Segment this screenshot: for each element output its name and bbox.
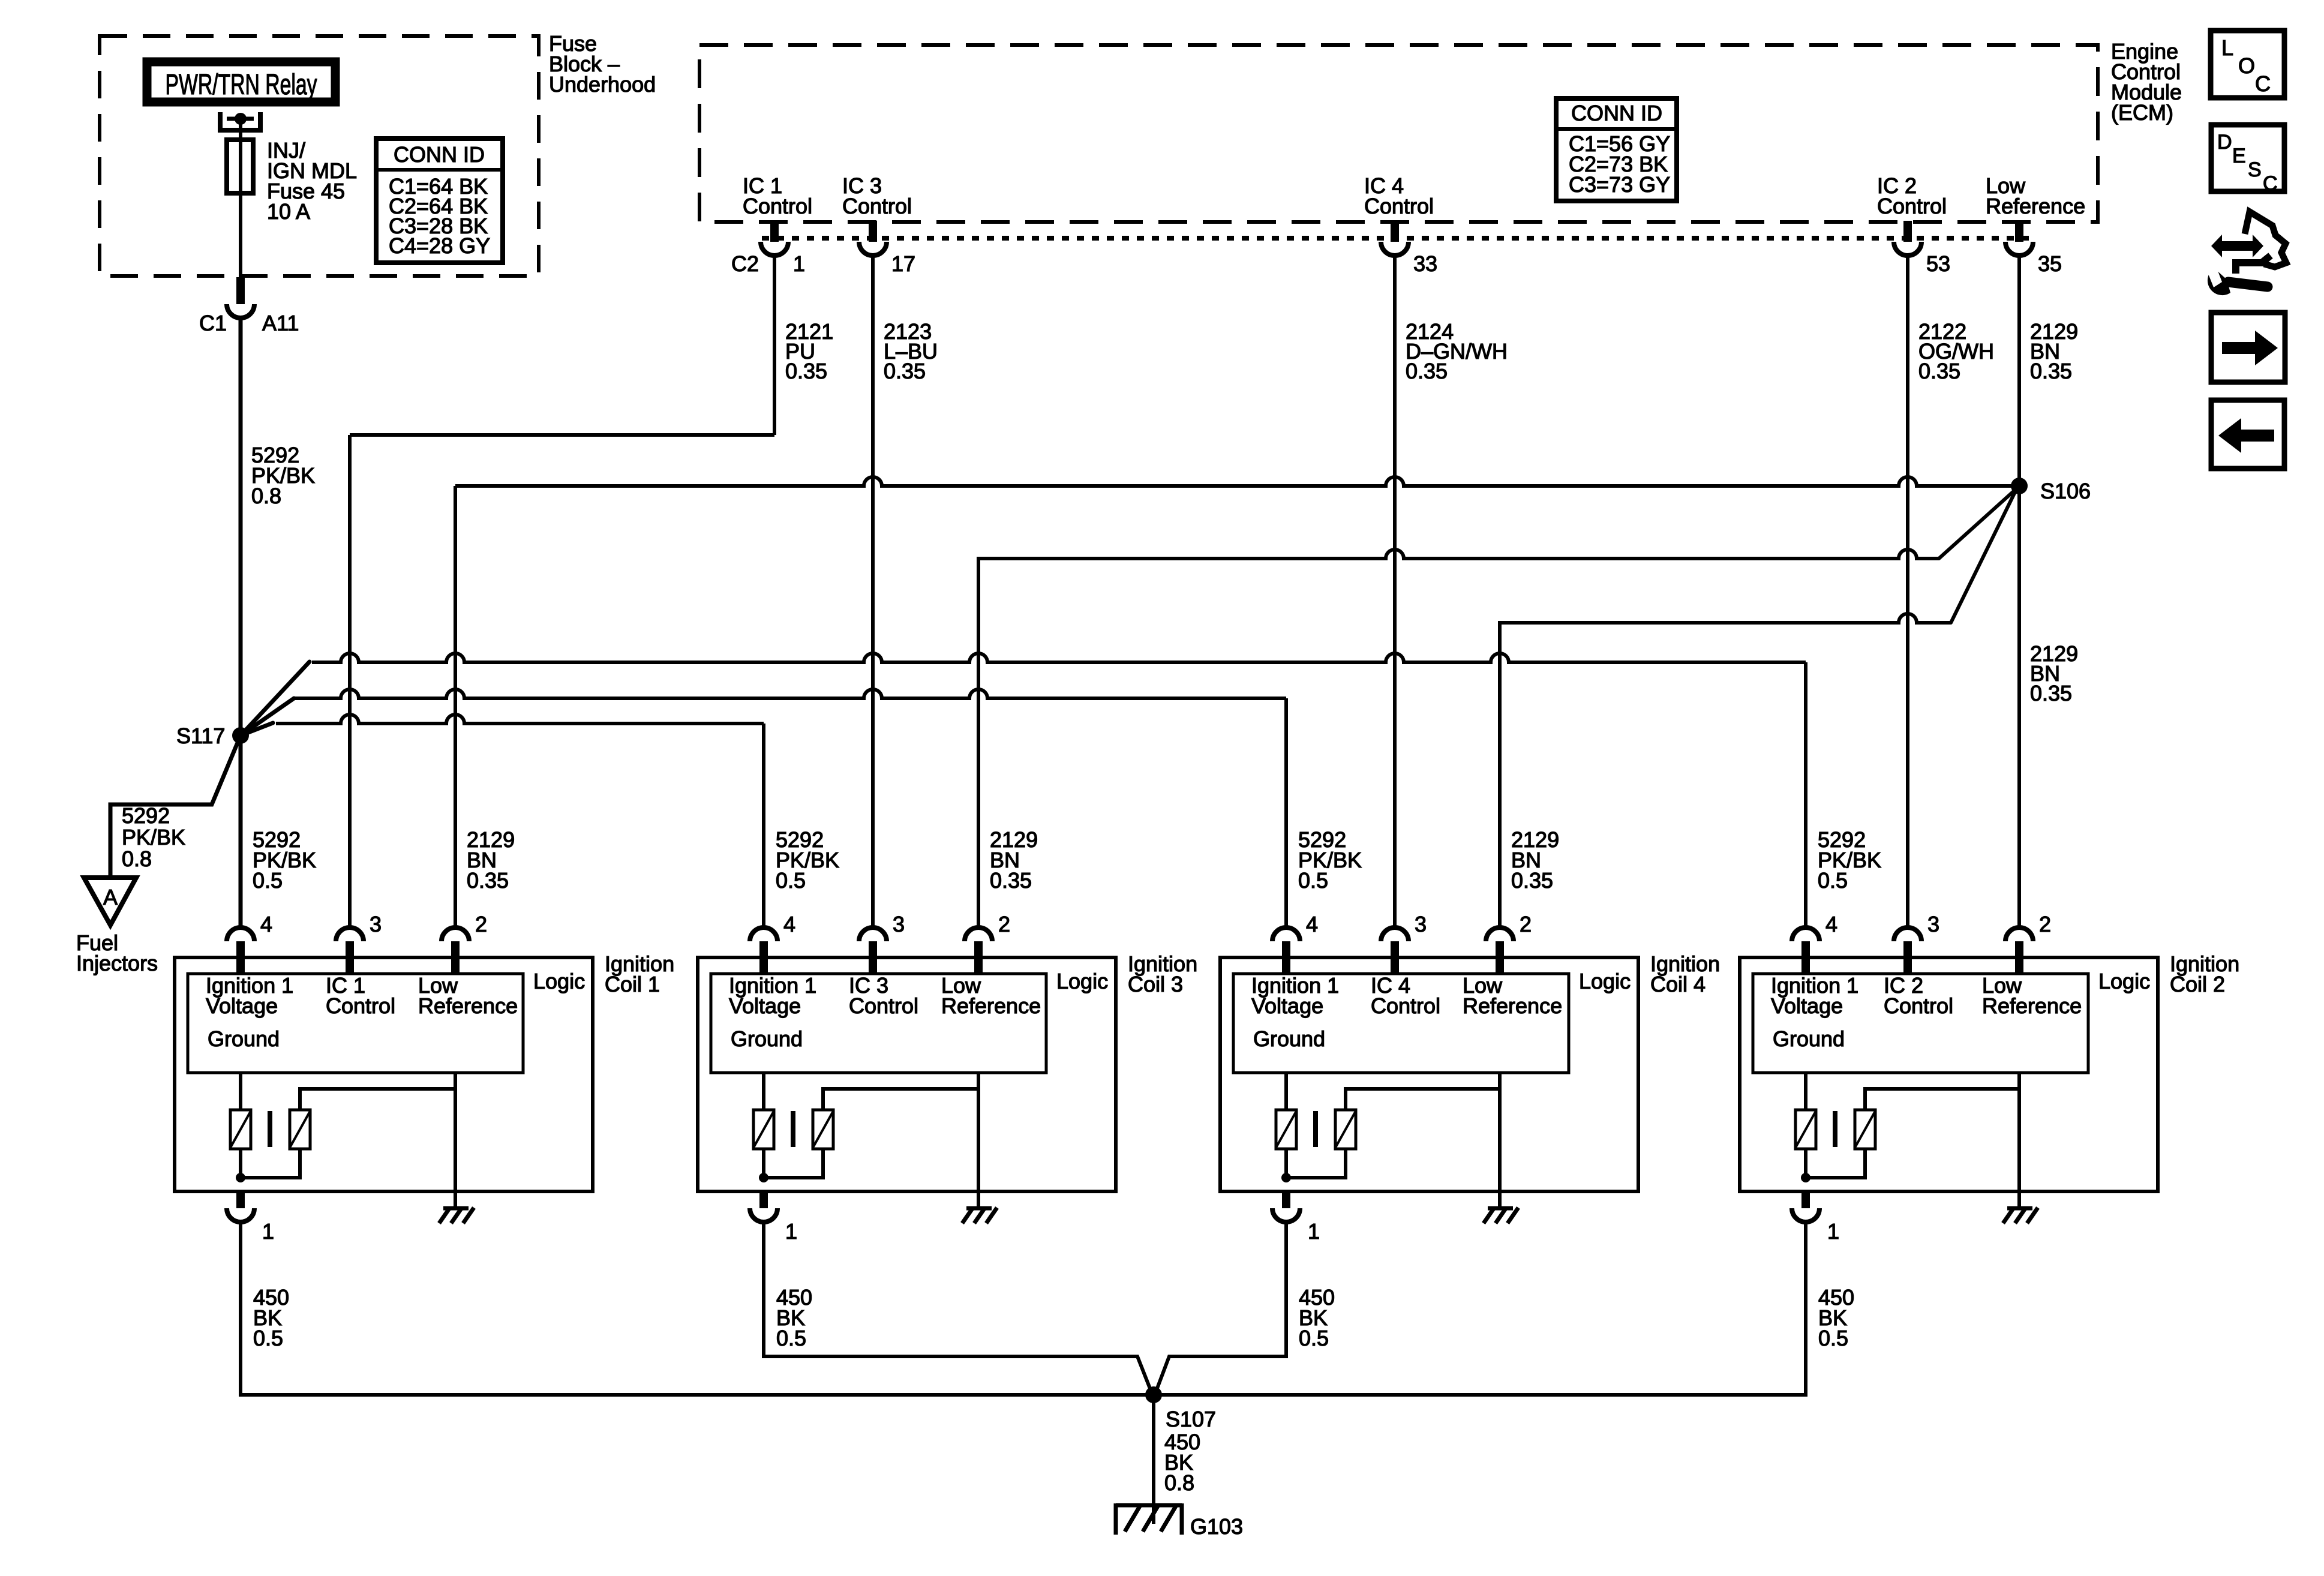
wire coil1 pin2 drop bbox=[454, 486, 457, 927]
coil 3 wire labels bbox=[776, 827, 1038, 893]
wire coil2 pin4 drop bbox=[1804, 662, 1807, 927]
svg-text:1: 1 bbox=[262, 1219, 274, 1244]
coil 4 wire labels bbox=[1298, 827, 1559, 893]
ECM connector pin 1 bbox=[761, 221, 788, 256]
svg-text:C4=28 GY: C4=28 GY bbox=[389, 233, 490, 258]
svg-text:S117: S117 bbox=[176, 724, 225, 748]
icon vehicle outline bbox=[2236, 212, 2286, 274]
svg-text:5292: 5292 bbox=[122, 803, 170, 828]
wire coil3 pin4 drop bbox=[762, 724, 765, 927]
svg-text:Voltage: Voltage bbox=[206, 993, 278, 1018]
svg-text:4: 4 bbox=[1825, 912, 1837, 936]
svg-text:53: 53 bbox=[1926, 251, 1950, 276]
label S117 bbox=[176, 724, 225, 748]
icon DESC box bbox=[2211, 125, 2284, 195]
svg-text:17: 17 bbox=[891, 251, 915, 276]
wire diagonal y1043 to S106 bbox=[1951, 488, 2017, 623]
ECM C2 connector dotted line bbox=[762, 236, 2035, 241]
pin number 17 bbox=[891, 251, 915, 276]
svg-text:Control: Control bbox=[326, 993, 395, 1018]
label 450 BK 0.8 bbox=[1164, 1430, 1200, 1495]
label G103 bbox=[1190, 1514, 1243, 1539]
wire L3 y1206 to coil3 pin4 bbox=[276, 715, 764, 724]
svg-text:CONN ID: CONN ID bbox=[1571, 101, 1662, 125]
fuse label bbox=[267, 138, 357, 224]
svg-text:Control: Control bbox=[1884, 993, 1953, 1018]
label C2 bbox=[731, 251, 759, 276]
svg-text:0.5: 0.5 bbox=[1818, 1326, 1848, 1350]
ignition coil 3 label bbox=[1128, 951, 1197, 996]
svg-text:35: 35 bbox=[2038, 251, 2062, 276]
ECM pin label IC 3 Control bbox=[842, 173, 912, 218]
svg-text:0.8: 0.8 bbox=[1164, 1470, 1194, 1495]
ignition coil 1 box bbox=[175, 912, 593, 1244]
svg-text:Control: Control bbox=[842, 194, 912, 218]
svg-text:0.35: 0.35 bbox=[1406, 359, 1448, 383]
fuel injectors off-page triangle A bbox=[84, 878, 136, 925]
svg-text:3: 3 bbox=[370, 912, 382, 936]
svg-text:Underhood: Underhood bbox=[549, 72, 656, 97]
svg-text:A: A bbox=[103, 885, 118, 909]
svg-text:Reference: Reference bbox=[1986, 194, 2085, 218]
svg-text:Voltage: Voltage bbox=[1251, 993, 1323, 1018]
wire S107 to G103 bbox=[1152, 1395, 1155, 1524]
ECM connector pin 35 bbox=[2005, 221, 2033, 256]
wire low ref bus y810 bbox=[455, 477, 2019, 486]
wire label 5292 PK/BK 0.8 upper bbox=[251, 443, 315, 508]
wire label 2124 D-GN/WH bbox=[1406, 319, 1508, 383]
relay contact bracket bbox=[220, 112, 260, 130]
label A11 bbox=[262, 311, 299, 335]
svg-text:33: 33 bbox=[1413, 251, 1437, 276]
svg-text:Voltage: Voltage bbox=[729, 993, 801, 1018]
svg-text:Logic: Logic bbox=[1056, 969, 1108, 993]
coil 1 450 BK label bbox=[253, 1285, 289, 1350]
relay K-PWR/TRN box bbox=[147, 62, 335, 102]
svg-text:S106: S106 bbox=[2040, 479, 2091, 503]
wire label 2129 BN top bbox=[2030, 319, 2078, 383]
svg-text:4: 4 bbox=[260, 912, 272, 936]
svg-text:0.5: 0.5 bbox=[1299, 1326, 1329, 1350]
ignition coil 2 label bbox=[2170, 951, 2239, 996]
svg-text:0.35: 0.35 bbox=[1511, 868, 1553, 893]
coil 2 wire labels bbox=[1818, 827, 1881, 893]
svg-text:0.5: 0.5 bbox=[776, 1326, 806, 1350]
icon vehicle double arrow bbox=[2211, 235, 2263, 257]
wire coil4 pin4 drop bbox=[1284, 698, 1288, 927]
ECM connector pin 33 bbox=[1381, 221, 1409, 256]
svg-text:0.5: 0.5 bbox=[776, 868, 806, 893]
svg-text:L: L bbox=[2221, 35, 2233, 60]
svg-text:Logic: Logic bbox=[2098, 969, 2150, 993]
label S106 bbox=[2040, 479, 2091, 503]
wire S117 diag to L3 bbox=[241, 723, 273, 736]
wire coil1 pin3 drop bbox=[348, 435, 352, 927]
svg-text:Control: Control bbox=[849, 993, 918, 1018]
svg-text:Reference: Reference bbox=[418, 993, 518, 1018]
coil 1 wire labels bbox=[253, 827, 515, 893]
ECM dashed box bbox=[699, 45, 2098, 222]
svg-text:Control: Control bbox=[1877, 194, 1947, 218]
ECM pin label IC 4 Control bbox=[1364, 173, 1434, 218]
svg-text:C1: C1 bbox=[199, 311, 227, 335]
svg-text:CONN ID: CONN ID bbox=[394, 142, 485, 167]
svg-text:Control: Control bbox=[1364, 194, 1434, 218]
svg-text:0.35: 0.35 bbox=[1918, 359, 1960, 383]
label fuel injectors bbox=[76, 930, 158, 975]
svg-text:A11: A11 bbox=[262, 311, 299, 335]
fuse F45 INJ/IGN MDL bbox=[227, 140, 253, 193]
svg-text:Reference: Reference bbox=[1982, 993, 2082, 1018]
coil 2 450 BK label bbox=[1818, 1285, 1854, 1350]
svg-text:Coil 3: Coil 3 bbox=[1128, 972, 1183, 996]
wire label 2129 BN mid bbox=[2030, 641, 2078, 706]
pin number 33 bbox=[1413, 251, 1437, 276]
ECM pin label IC 1 Control bbox=[743, 173, 812, 218]
svg-text:Ground: Ground bbox=[731, 1026, 803, 1051]
svg-text:10 A: 10 A bbox=[267, 199, 310, 224]
wire diagonal y931 to S106 bbox=[1939, 488, 2017, 559]
svg-text:S107: S107 bbox=[1166, 1407, 1216, 1431]
svg-text:S: S bbox=[2248, 158, 2262, 181]
svg-text:Control: Control bbox=[1371, 993, 1440, 1018]
ECM label bbox=[2111, 39, 2182, 125]
ignition coil 3 box bbox=[698, 912, 1116, 1244]
pin number 1 bbox=[793, 251, 805, 276]
svg-text:Reference: Reference bbox=[941, 993, 1041, 1018]
svg-text:0.35: 0.35 bbox=[2030, 681, 2072, 706]
wire S117 diag to L1 bbox=[241, 662, 310, 736]
svg-text:2: 2 bbox=[475, 912, 487, 936]
svg-text:2: 2 bbox=[2039, 912, 2051, 936]
svg-text:Coil 2: Coil 2 bbox=[2170, 972, 2225, 996]
ECM connector pin 53 bbox=[1894, 221, 1921, 256]
junction S117 bbox=[232, 727, 249, 744]
ECM connector pin 17 bbox=[859, 221, 887, 256]
junction S107 bbox=[1145, 1386, 1162, 1403]
wire label 2122 OG/WH bbox=[1918, 319, 1994, 383]
svg-text:PWR/TRN Relay: PWR/TRN Relay bbox=[166, 69, 317, 101]
wire S117 diag to L2 bbox=[241, 698, 294, 736]
svg-text:2: 2 bbox=[1520, 912, 1532, 936]
svg-text:3: 3 bbox=[893, 912, 905, 936]
svg-text:G103: G103 bbox=[1190, 1514, 1243, 1539]
svg-text:2: 2 bbox=[998, 912, 1010, 936]
svg-text:0.35: 0.35 bbox=[2030, 359, 2072, 383]
icon right arrow box bbox=[2211, 313, 2285, 382]
svg-text:Injectors: Injectors bbox=[76, 951, 158, 975]
svg-text:0.35: 0.35 bbox=[990, 868, 1032, 893]
icon wrench bbox=[2206, 265, 2268, 295]
svg-text:Ground: Ground bbox=[1773, 1026, 1845, 1051]
wire pin35 through S106 to coil2 pin2 bbox=[2017, 256, 2021, 927]
wire pin17 to coil3 pin3 bbox=[871, 256, 875, 927]
wire label 2121 PU bbox=[785, 319, 833, 383]
svg-text:Voltage: Voltage bbox=[1771, 993, 1843, 1018]
wire coil4 pin1 to S107 bbox=[1155, 1222, 1286, 1393]
ignition coil 4 box bbox=[1220, 912, 1638, 1244]
svg-text:O: O bbox=[2238, 53, 2255, 78]
ignition coil 1 label bbox=[605, 951, 674, 996]
fuse block - underhood dashed box bbox=[100, 36, 539, 276]
svg-text:PK/BK: PK/BK bbox=[122, 825, 185, 849]
svg-text:Control: Control bbox=[743, 194, 812, 218]
svg-text:0.5: 0.5 bbox=[253, 1326, 283, 1350]
connector C1 pin A11 bbox=[227, 277, 254, 318]
wire label 2123 L-BU bbox=[884, 319, 938, 383]
svg-text:0.8: 0.8 bbox=[251, 484, 281, 508]
wire pin1 down bbox=[773, 256, 776, 435]
ground G103 symbol bbox=[1116, 1503, 1182, 1535]
svg-text:4: 4 bbox=[1306, 912, 1318, 936]
icon LOC box bbox=[2211, 31, 2284, 98]
svg-text:1: 1 bbox=[1827, 1219, 1839, 1244]
fuse block label bbox=[549, 31, 656, 97]
svg-text:0.8: 0.8 bbox=[122, 846, 152, 871]
wire S117 to coil1 pin4 bbox=[239, 736, 243, 927]
wire L2 y1168 to coil4 pin4 bbox=[294, 689, 1286, 698]
coil 4 450 BK label bbox=[1299, 1285, 1335, 1350]
ECM pin label Low Reference bbox=[1986, 173, 2085, 218]
svg-text:0.35: 0.35 bbox=[785, 359, 827, 383]
svg-text:1: 1 bbox=[785, 1219, 797, 1244]
svg-text:Logic: Logic bbox=[533, 969, 585, 993]
svg-text:0.5: 0.5 bbox=[1298, 868, 1328, 893]
svg-text:1: 1 bbox=[793, 251, 805, 276]
wire coil3 pin2 up and right y931 bbox=[978, 550, 1939, 927]
wire relay to fuse bbox=[239, 121, 242, 277]
pin number 35 bbox=[2038, 251, 2062, 276]
wire coil3 pin1 to S107 bbox=[764, 1222, 1152, 1393]
svg-text:C: C bbox=[2255, 71, 2271, 96]
ignition coil 4 label bbox=[1650, 951, 1720, 996]
ECM pin label IC 2 Control bbox=[1877, 173, 1947, 218]
svg-text:D: D bbox=[2217, 131, 2232, 154]
coil 3 450 BK label bbox=[776, 1285, 812, 1350]
svg-text:3: 3 bbox=[1927, 912, 1939, 936]
svg-text:0.35: 0.35 bbox=[884, 359, 926, 383]
label 5292 PK/BK 0.8 lower bbox=[122, 803, 185, 871]
pin number 53 bbox=[1926, 251, 1950, 276]
svg-text:0.35: 0.35 bbox=[467, 868, 509, 893]
conn id table fuse block bbox=[376, 139, 503, 263]
svg-text:C2: C2 bbox=[731, 251, 759, 276]
icon left arrow box bbox=[2211, 400, 2284, 469]
wire coil4 pin2 up and right y1043 bbox=[1500, 614, 1951, 927]
svg-text:3: 3 bbox=[1415, 912, 1427, 936]
svg-text:1: 1 bbox=[1308, 1219, 1320, 1244]
svg-text:Reference: Reference bbox=[1463, 993, 1562, 1018]
ignition coil 2 box bbox=[1740, 912, 2158, 1244]
wire pin33 to coil4 pin3 bbox=[1393, 256, 1397, 927]
svg-text:Ground: Ground bbox=[1253, 1026, 1325, 1051]
wire 2121 PU horizontal y725 bbox=[350, 433, 774, 437]
svg-text:4: 4 bbox=[783, 912, 795, 936]
junction S106 bbox=[2011, 478, 2028, 494]
svg-text:E: E bbox=[2232, 145, 2246, 167]
svg-text:(ECM): (ECM) bbox=[2111, 100, 2173, 125]
wire coil1 pin1 to bottom bus bbox=[241, 1222, 1806, 1395]
label C1 bbox=[199, 311, 227, 335]
wire pin53 to coil2 pin3 bbox=[1906, 256, 1909, 927]
wire L1 y1110 to coil2 pin4 bbox=[312, 653, 1806, 662]
conn id table ECM bbox=[1556, 98, 1677, 201]
svg-text:Ground: Ground bbox=[208, 1026, 280, 1051]
relay contact blade bbox=[227, 113, 254, 125]
label S107 bbox=[1166, 1407, 1216, 1431]
wire C1/A11 to S117 bbox=[239, 318, 243, 736]
svg-text:C3=73 GY: C3=73 GY bbox=[1569, 172, 1670, 197]
svg-text:Coil 1: Coil 1 bbox=[605, 972, 660, 996]
svg-text:0.5: 0.5 bbox=[1818, 868, 1848, 893]
svg-text:0.5: 0.5 bbox=[253, 868, 283, 893]
svg-text:Logic: Logic bbox=[1579, 969, 1631, 993]
svg-text:Coil 4: Coil 4 bbox=[1650, 972, 1706, 996]
svg-text:C: C bbox=[2263, 172, 2278, 195]
wire S117 to fuel injectors bbox=[110, 736, 241, 878]
